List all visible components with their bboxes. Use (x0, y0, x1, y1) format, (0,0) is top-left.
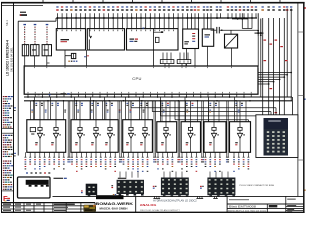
svg-text:19DC2-001 SCHALTPLAN KOMPLETT: 19DC2-001 SCHALTPLAN KOMPLETT (140, 209, 181, 212)
relay contact S1 (22, 45, 28, 56)
cpu pin marks bottom (28, 92, 252, 93)
capacitor C1 (211, 27, 259, 34)
module K2 (87, 29, 124, 50)
contact symbol in K2 (89, 29, 92, 50)
supply bus 2 (24, 100, 292, 102)
title top strip text (229, 199, 249, 200)
bus label (38, 93, 70, 95)
relay contact S3 (42, 45, 51, 56)
terminal strip X10 (160, 53, 174, 67)
svg-text:PLUG VIEW CONNECTOR SIDE: PLUG VIEW CONNECTOR SIDE (240, 185, 275, 187)
driver box A4 drops (75, 97, 113, 120)
sensor wires dashed (23, 24, 48, 45)
right bus net labels (264, 40, 288, 114)
ground terminal group 2 (196, 196, 203, 198)
driver box A9 drops (235, 97, 243, 122)
driver box A9 (230, 122, 251, 153)
right bus verticals (263, 9, 292, 158)
cpu pin marks top (24, 67, 258, 68)
svg-text:HYDRAULIKSCHALTPLAN LD 19DC2: HYDRAULIKSCHALTPLAN LD 19DC2 (153, 200, 197, 203)
connector lead-in marks (26, 172, 228, 178)
driver box A5 drops (126, 97, 148, 120)
fuse F1 above cpu (65, 53, 89, 66)
cpu to bus stubs (27, 94, 251, 98)
wire segment (232, 18, 248, 20)
terminal strip X11 (177, 53, 191, 67)
bus junctions top (57, 17, 253, 19)
svg-text:CPU: CPU (132, 76, 142, 81)
driver box A7 (181, 122, 200, 153)
stamp emblem (84, 205, 97, 212)
cpu U1 (24, 66, 258, 94)
title table right (227, 196, 304, 212)
driver box A8 (204, 122, 226, 153)
wire left branch (14, 18, 56, 156)
connector X4 (153, 178, 189, 197)
relay contact S2 (31, 45, 39, 56)
drawing area bottom line (53, 195, 304, 197)
inner frame right (297, 3, 299, 197)
connector X2 (81, 184, 97, 197)
connector X6 right (264, 118, 289, 156)
staircase wire 4 (175, 101, 249, 122)
frame row tick marks (298, 7, 305, 191)
connector X5 (200, 178, 235, 197)
svg-text:SK-1: SK-1 (5, 20, 9, 26)
connector X1 label (54, 178, 67, 179)
gap through wires (67, 101, 229, 163)
node label ADF (20, 12, 27, 16)
manufacturer logo bar (96, 194, 124, 199)
connector X3 (111, 178, 144, 196)
title table left (2, 203, 96, 213)
wire from node to cpu (257, 36, 259, 66)
manufacturer name (96, 201, 134, 210)
ground terminal group 1 (153, 196, 160, 198)
driver box A3 drops (35, 97, 59, 120)
bus right bends (289, 97, 293, 158)
net labels top row (56, 6, 292, 10)
pin numbers in modules (57, 30, 174, 32)
extra drops left block (31, 101, 247, 122)
aux symbol in driver box (30, 128, 35, 135)
driver box A6 (157, 122, 177, 153)
relay coil symbol in K3 (154, 29, 164, 66)
junction node cluster (255, 13, 264, 36)
revision divider (2, 128, 13, 130)
svg-text:LD 19DC2 / BW219DH-4: LD 19DC2 / BW219DH-4 (5, 40, 9, 76)
wire stubs to terminal row (58, 13, 257, 29)
left info column (13, 3, 15, 213)
doc number text (228, 199, 296, 213)
drop labels band (31, 110, 239, 113)
wires relays to cpu (25, 56, 50, 66)
driver box A3 (27, 120, 66, 153)
svg-text:SN 101 920 04 1001: SN 101 920 04 1001 (9, 47, 13, 72)
staircase wire 2 (152, 101, 271, 115)
revision history rows 3 (3, 161, 13, 190)
ground terminal group 3 (213, 196, 218, 198)
module K1 (56, 29, 85, 50)
staircase wire 1 (131, 101, 276, 115)
svg-text:MASCH.-BAU GMBH: MASCH.-BAU GMBH (100, 206, 128, 210)
frame column ticks (43, 0, 280, 3)
module K3 (127, 28, 179, 50)
cpu output wires right (258, 72, 292, 85)
dc converter U2 (225, 34, 238, 48)
wire stubs below bus into modules (192, 18, 253, 29)
frame corner line (2, 4, 44, 6)
revision divider 2 (2, 190, 13, 192)
module A2 (202, 29, 213, 46)
title center divider (135, 196, 137, 212)
svg-text:BW219DH-4 101 920 04 1001: BW219DH-4 101 920 04 1001 (228, 211, 267, 213)
connector X1 (18, 177, 51, 198)
company logo F (3, 194, 10, 203)
wire to converter (230, 30, 232, 34)
svg-text:Blatt EMTM008: Blatt EMTM008 (229, 206, 257, 209)
plug view outline box (256, 115, 298, 158)
revision history rows 2 (3, 135, 13, 157)
module A1 (183, 29, 199, 49)
bus wire top (56, 17, 257, 19)
output stubs with terminal labels (24, 152, 249, 172)
driver box A5 (123, 120, 153, 153)
staircase wire 3 (161, 101, 267, 116)
title table row texts (3, 204, 75, 212)
wires modules to cpu (65, 46, 232, 66)
bus junction dots 2 (33, 100, 251, 102)
wire L-bend (242, 13, 252, 28)
driver box A4 (71, 120, 118, 153)
supply bus 1 (24, 96, 292, 98)
driver box A7 drops (185, 97, 193, 122)
wire bypass right (260, 36, 262, 96)
svg-text:BOMAG-WERK: BOMAG-WERK (96, 201, 134, 206)
driver box A6 drops (161, 97, 169, 122)
revision history rows (3, 96, 13, 128)
driver box A8 drops (209, 97, 217, 122)
svg-text:ANALOG: ANALOG (140, 203, 157, 207)
